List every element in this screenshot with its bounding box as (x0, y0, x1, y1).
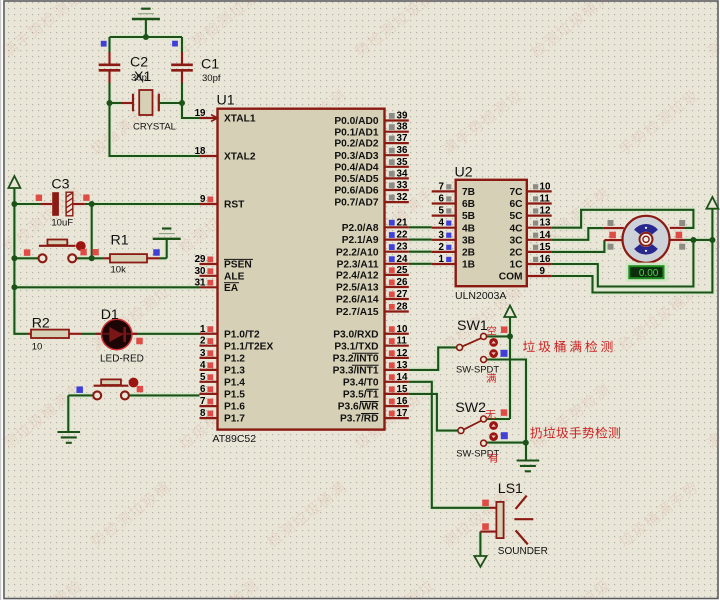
svg-text:11: 11 (397, 336, 408, 347)
svg-text:XTAL2: XTAL2 (224, 152, 256, 163)
svg-text:5: 5 (200, 372, 206, 383)
svg-text:1B: 1B (462, 260, 475, 271)
svg-text:P2.6/A14: P2.6/A14 (336, 295, 379, 306)
svg-text:P1.6: P1.6 (224, 402, 245, 413)
svg-text:2C: 2C (509, 248, 523, 259)
svg-text:P1.4: P1.4 (224, 377, 245, 388)
svg-text:34: 34 (397, 168, 408, 179)
svg-text:D1: D1 (101, 307, 119, 323)
svg-text:SW2: SW2 (455, 400, 486, 416)
svg-text:30pf: 30pf (202, 73, 221, 84)
svg-text:7: 7 (200, 396, 206, 407)
svg-text:24: 24 (397, 254, 408, 265)
svg-text:9: 9 (200, 194, 206, 205)
svg-text:P3.1/TXD: P3.1/TXD (334, 341, 378, 352)
svg-text:COM: COM (499, 272, 523, 283)
svg-text:3B: 3B (462, 235, 475, 246)
svg-text:6: 6 (200, 384, 206, 395)
svg-text:R1: R1 (111, 233, 129, 249)
svg-text:29: 29 (195, 254, 206, 265)
svg-text:P0.0/AD0: P0.0/AD0 (334, 116, 379, 127)
svg-text:P3.2/INT0: P3.2/INT0 (333, 354, 379, 365)
svg-text:P2.1/A9: P2.1/A9 (342, 235, 379, 246)
svg-text:4: 4 (200, 360, 206, 371)
svg-text:P0.7/AD7: P0.7/AD7 (334, 198, 379, 209)
svg-text:7: 7 (439, 181, 445, 192)
svg-text:7C: 7C (509, 187, 523, 198)
svg-text:6: 6 (439, 194, 445, 205)
svg-text:26: 26 (397, 277, 408, 288)
svg-text:32: 32 (397, 192, 408, 203)
svg-text:SOUNDER: SOUNDER (498, 546, 548, 557)
svg-text:19: 19 (195, 108, 206, 119)
svg-text:15: 15 (397, 384, 408, 395)
svg-text:3: 3 (439, 230, 445, 241)
svg-text:6C: 6C (509, 199, 523, 210)
svg-text:PSEN: PSEN (224, 260, 252, 271)
svg-text:1: 1 (439, 254, 445, 265)
svg-text:P1.5: P1.5 (224, 390, 245, 401)
svg-text:4B: 4B (462, 223, 475, 234)
svg-text:12: 12 (397, 348, 408, 359)
svg-text:X1: X1 (134, 69, 151, 85)
svg-text:C3: C3 (51, 177, 69, 193)
svg-text:12: 12 (540, 206, 551, 217)
svg-text:10k: 10k (111, 265, 127, 276)
svg-text:CRYSTAL: CRYSTAL (133, 121, 176, 132)
svg-text:ALE: ALE (224, 271, 245, 282)
svg-text:10: 10 (540, 181, 551, 192)
svg-text:2: 2 (200, 336, 206, 347)
svg-text:P3.5/T1: P3.5/T1 (343, 390, 379, 401)
svg-text:5: 5 (439, 206, 445, 217)
svg-text:P3.3/INT1: P3.3/INT1 (333, 366, 379, 377)
svg-text:15: 15 (540, 242, 551, 253)
svg-text:22: 22 (397, 230, 408, 241)
svg-text:6B: 6B (462, 199, 475, 210)
svg-text:10: 10 (397, 324, 408, 335)
svg-text:R2: R2 (32, 316, 50, 332)
svg-text:LS1: LS1 (498, 481, 523, 497)
svg-text:5B: 5B (462, 211, 475, 222)
svg-text:4: 4 (439, 218, 445, 229)
svg-text:P1.7: P1.7 (224, 414, 245, 425)
svg-text:P1.3: P1.3 (224, 366, 245, 377)
svg-text:P0.2/AD2: P0.2/AD2 (334, 139, 379, 150)
svg-text:3: 3 (200, 348, 206, 359)
svg-text:16: 16 (397, 396, 408, 407)
svg-text:8: 8 (200, 408, 206, 419)
svg-text:17: 17 (397, 408, 408, 419)
svg-text:P2.3/A11: P2.3/A11 (337, 259, 379, 270)
svg-text:27: 27 (397, 289, 408, 300)
svg-text:25: 25 (397, 265, 408, 276)
svg-text:31: 31 (195, 277, 206, 288)
svg-text:P3.6/WR: P3.6/WR (338, 402, 379, 413)
svg-text:39: 39 (397, 111, 408, 122)
svg-text:10uF: 10uF (51, 218, 73, 229)
svg-text:23: 23 (397, 242, 408, 253)
svg-text:14: 14 (540, 230, 551, 241)
svg-text:37: 37 (397, 133, 408, 144)
svg-text:P3.0/RXD: P3.0/RXD (333, 329, 378, 340)
svg-text:2B: 2B (462, 248, 475, 259)
svg-text:P1.1/T2EX: P1.1/T2EX (224, 341, 273, 352)
svg-text:13: 13 (397, 360, 408, 371)
svg-text:10: 10 (32, 342, 43, 353)
svg-text:P0.4/AD4: P0.4/AD4 (334, 162, 379, 173)
svg-text:EA: EA (224, 283, 239, 294)
svg-text:30: 30 (195, 266, 206, 277)
svg-text:P0.3/AD3: P0.3/AD3 (334, 151, 379, 162)
svg-text:C1: C1 (201, 57, 219, 73)
svg-text:P0.5/AD5: P0.5/AD5 (334, 174, 379, 185)
svg-text:13: 13 (540, 218, 551, 229)
svg-text:38: 38 (397, 122, 408, 133)
svg-text:28: 28 (397, 302, 408, 313)
svg-text:33: 33 (397, 180, 408, 191)
svg-text:4C: 4C (509, 223, 523, 234)
svg-text:35: 35 (397, 157, 408, 168)
svg-text:LED-RED: LED-RED (100, 353, 144, 364)
svg-text:P2.2/A10: P2.2/A10 (336, 247, 379, 258)
svg-text:XTAL1: XTAL1 (224, 114, 256, 125)
svg-text:P0.6/AD6: P0.6/AD6 (334, 186, 379, 197)
svg-text:1C: 1C (509, 260, 523, 271)
svg-text:P2.4/A12: P2.4/A12 (336, 271, 379, 282)
svg-text:P2.7/A15: P2.7/A15 (336, 307, 379, 318)
svg-text:3C: 3C (509, 235, 523, 246)
svg-text:SW-SPDT: SW-SPDT (456, 363, 499, 374)
svg-text:P1.2: P1.2 (224, 354, 245, 365)
svg-text:11: 11 (540, 194, 551, 205)
svg-text:14: 14 (397, 372, 408, 383)
svg-text:9: 9 (540, 266, 546, 277)
svg-text:7B: 7B (462, 187, 475, 198)
svg-text:U2: U2 (455, 165, 473, 181)
svg-text:ULN2003A: ULN2003A (455, 290, 506, 302)
svg-text:P3.4/T0: P3.4/T0 (343, 377, 379, 388)
svg-text:AT89C52: AT89C52 (213, 433, 257, 445)
svg-text:P0.1/AD1: P0.1/AD1 (334, 127, 379, 138)
svg-text:36: 36 (397, 145, 408, 156)
svg-text:P1.0/T2: P1.0/T2 (224, 329, 260, 340)
svg-text:P3.7/RD: P3.7/RD (340, 414, 379, 425)
svg-text:1: 1 (200, 324, 206, 335)
svg-text:P2.5/A13: P2.5/A13 (336, 283, 379, 294)
svg-text:5C: 5C (509, 211, 523, 222)
svg-text:18: 18 (195, 146, 206, 157)
svg-text:P2.0/A8: P2.0/A8 (342, 223, 379, 234)
svg-text:16: 16 (540, 254, 551, 265)
svg-text:RST: RST (224, 200, 245, 211)
svg-text:U1: U1 (217, 93, 235, 109)
svg-text:0.00: 0.00 (639, 268, 659, 279)
svg-text:2: 2 (439, 242, 445, 253)
svg-text:SW1: SW1 (457, 318, 488, 334)
svg-text:21: 21 (397, 217, 408, 228)
